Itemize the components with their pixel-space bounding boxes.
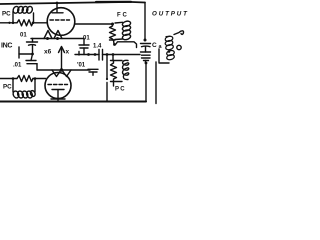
- arrow up mark: [59, 47, 65, 53]
- arrow mark: [174, 31, 184, 35]
- V2 filament chevrons: [52, 70, 61, 77]
- capacitor C1 input coupling top: [32, 39, 34, 43]
- wire PC bottom: [111, 81, 123, 83]
- node plate bus junction: [144, 39, 147, 42]
- wire PC top: [111, 60, 123, 62]
- wire input stub: [19, 53, 33, 55]
- wire filament drop: [61, 49, 63, 70]
- inductor L2 parasitic choke coil: [12, 79, 36, 99]
- V1 filament: [44, 31, 52, 39]
- wire to lower coupling cap: [31, 54, 33, 61]
- node input junction: [31, 53, 34, 56]
- wire V1 plate to FC: [75, 23, 112, 25]
- wire V1 plate lead: [56, 3, 58, 13]
- node C3 bottom: [87, 53, 90, 56]
- node V2 grid left: [12, 77, 15, 80]
- V1 grid dashes: [50, 19, 70, 21]
- node V2 grid right: [34, 77, 37, 80]
- wire top border B+ bus: [0, 2, 145, 4]
- V2 grid dashes: [48, 84, 68, 86]
- V2 cathode lead to ground: [57, 90, 59, 99]
- svg-text:PC: PC: [115, 87, 126, 93]
- wire right vertical from top border: [144, 3, 146, 41]
- svg-text:1.4: 1.4: [93, 44, 102, 50]
- svg-text:′01: ′01: [77, 63, 86, 69]
- svg-text:INC: INC: [1, 43, 12, 50]
- capacitor C4 series: [98, 50, 100, 61]
- svg-text:.01: .01: [13, 63, 22, 69]
- capacitor C5: [88, 68, 98, 70]
- wire V2 grid line: [0, 78, 17, 80]
- node mid bus a: [94, 53, 97, 56]
- inductor L1 parasitic choke coil: [12, 5, 33, 22]
- wire secondary lead vertical: [155, 62, 157, 104]
- wire grid to tube V2: [33, 78, 46, 80]
- node mid bus c: [112, 53, 115, 56]
- wire end tick: [78, 52, 80, 56]
- wire above V2: [37, 69, 90, 71]
- node ground drop: [145, 62, 148, 65]
- transformer terminal circle: [177, 45, 181, 49]
- node junction top border to V1 plate: [56, 2, 59, 5]
- wire PC top stub: [112, 55, 114, 61]
- V2 filament bar: [52, 89, 64, 91]
- V1 plate bar: [52, 12, 63, 14]
- capacitor C8: [141, 51, 151, 53]
- tube V1 envelope: [47, 8, 75, 36]
- tube V2 envelope: [45, 73, 71, 99]
- svg-text:FC: FC: [117, 13, 129, 19]
- node grid V1 left: [12, 22, 15, 25]
- svg-text:PC: PC: [2, 11, 11, 18]
- inductor L4 choke: [123, 60, 129, 79]
- ground bar V2: [51, 98, 65, 100]
- svg-text:x: x: [66, 49, 70, 56]
- wire bracket to transformer: [116, 42, 137, 48]
- wire grid to tube V1: [33, 22, 47, 24]
- resistor R2 parasitic suppressor: [17, 76, 33, 82]
- wire FC bottom: [110, 39, 116, 41]
- ground bars: [142, 57, 151, 59]
- inductor L3 choke: [115, 20, 131, 40]
- input jack pin: [18, 47, 20, 58]
- node filament right: [56, 37, 59, 40]
- capacitor C7: [141, 43, 151, 45]
- wire FC bottom stub: [113, 40, 116, 44]
- wire V1 grid line: [0, 22, 17, 24]
- node grid V1 right: [32, 22, 35, 25]
- node FC top: [111, 23, 114, 26]
- wire PC bottom stub: [113, 82, 115, 87]
- resistor R1 parasitic suppressor: [17, 20, 33, 26]
- wire below V1: [31, 38, 84, 40]
- node winding: [168, 50, 171, 53]
- resistor R4 vertical: [111, 61, 117, 82]
- node mid bus b: [106, 53, 109, 56]
- wire bottom-right vertical: [145, 63, 147, 102]
- svg-text:01: 01: [20, 33, 27, 39]
- transformer T1 primary winding: [165, 35, 175, 60]
- svg-text:C: C: [152, 42, 157, 49]
- resistor R3 vertical: [110, 24, 116, 40]
- svg-text:OUTPUT: OUTPUT: [152, 11, 189, 18]
- capacitor C2 input coupling bottom: [26, 60, 36, 62]
- wire winding bracket: [159, 49, 169, 63]
- wire bottom border ground bus: [0, 101, 146, 103]
- svg-text:x6: x6: [44, 49, 52, 56]
- wire mid vertical drop: [106, 55, 108, 79]
- svg-text:PC: PC: [3, 84, 12, 91]
- node V2 top: [60, 68, 63, 71]
- capacitor C3: [83, 39, 85, 46]
- node filament left: [46, 37, 49, 40]
- wire mid bus: [75, 54, 99, 56]
